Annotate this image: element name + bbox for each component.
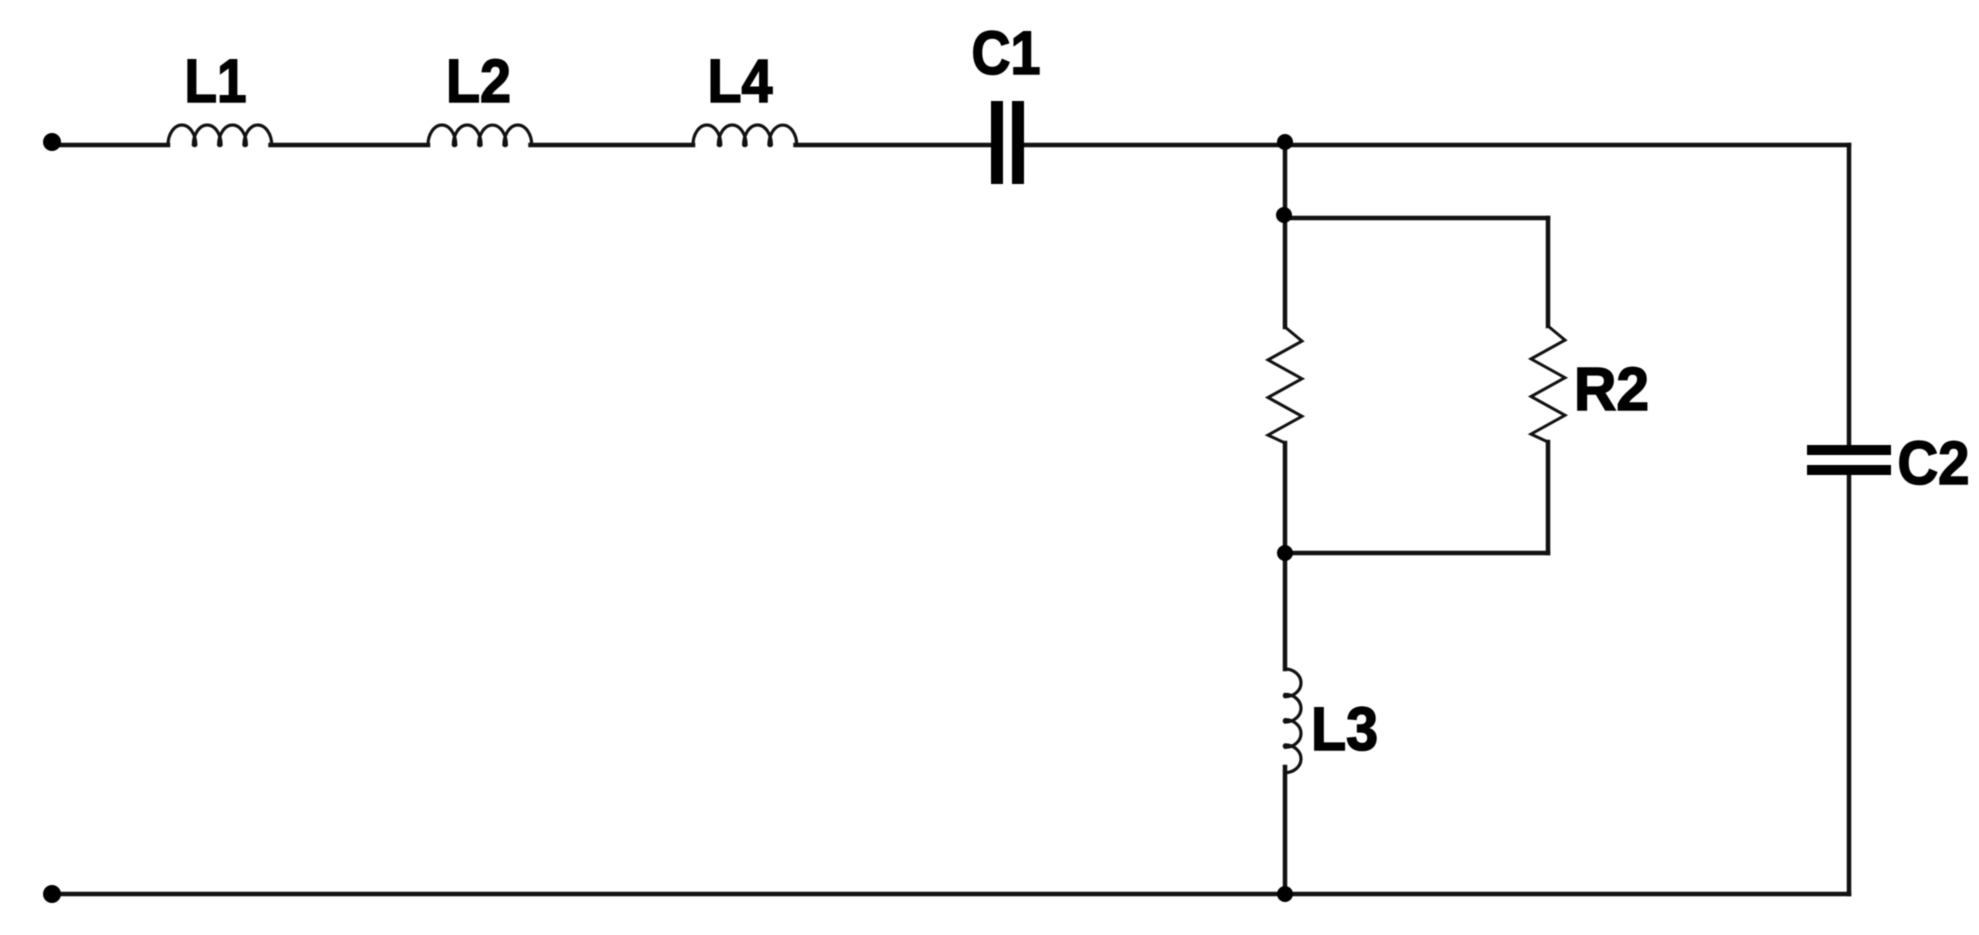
wire right edge upper (to C2) <box>1847 145 1852 447</box>
wire L3 to bottom rail <box>1283 767 1288 894</box>
wire parallel-box bottom <box>1285 551 1548 556</box>
inductor L1 <box>168 125 272 146</box>
node junction box bottom <box>1277 545 1293 561</box>
svg-text:L3: L3 <box>1311 695 1378 763</box>
inductor L2 <box>428 125 532 146</box>
wire parallel-box right lower <box>1546 442 1551 553</box>
capacitor C2 plates <box>1807 445 1891 455</box>
svg-text:C1: C1 <box>972 19 1041 87</box>
resistor R2 (right branch) <box>1531 326 1565 442</box>
node junction top rail <box>1277 134 1293 150</box>
wire L4 to C1 <box>796 143 990 148</box>
svg-text:R2: R2 <box>1574 355 1649 423</box>
wire junction drop from top rail <box>1283 145 1288 215</box>
wire parallel-box left upper <box>1283 215 1288 327</box>
wire C1 to top-right corner <box>1026 143 1849 148</box>
svg-text:L2: L2 <box>446 47 511 115</box>
node junction bottom rail <box>1277 886 1293 902</box>
wire parallel-box top <box>1285 216 1548 221</box>
wire parallel-box left lower <box>1283 443 1288 553</box>
wire node to L3 <box>1283 553 1288 669</box>
svg-text:L4: L4 <box>708 47 773 115</box>
wire top-left segment <box>58 143 168 148</box>
wire parallel-box right upper <box>1546 218 1551 326</box>
resistor R1 (unlabeled, left branch) <box>1268 327 1302 443</box>
node junction box top <box>1276 207 1292 223</box>
inductor L4 <box>693 125 797 146</box>
capacitor C1 plates <box>991 101 1003 184</box>
wire L2 to L4 <box>531 143 694 148</box>
node terminal bottom-left <box>43 885 61 903</box>
node terminal top-left <box>43 133 61 151</box>
wire right edge lower (from C2) <box>1847 473 1852 894</box>
svg-text:C2: C2 <box>1898 429 1970 497</box>
wire bottom rail <box>52 892 1849 897</box>
inductor L3 (vertical) <box>1284 669 1301 773</box>
wire L1 to L2 <box>271 143 429 148</box>
svg-text:L1: L1 <box>185 47 247 115</box>
